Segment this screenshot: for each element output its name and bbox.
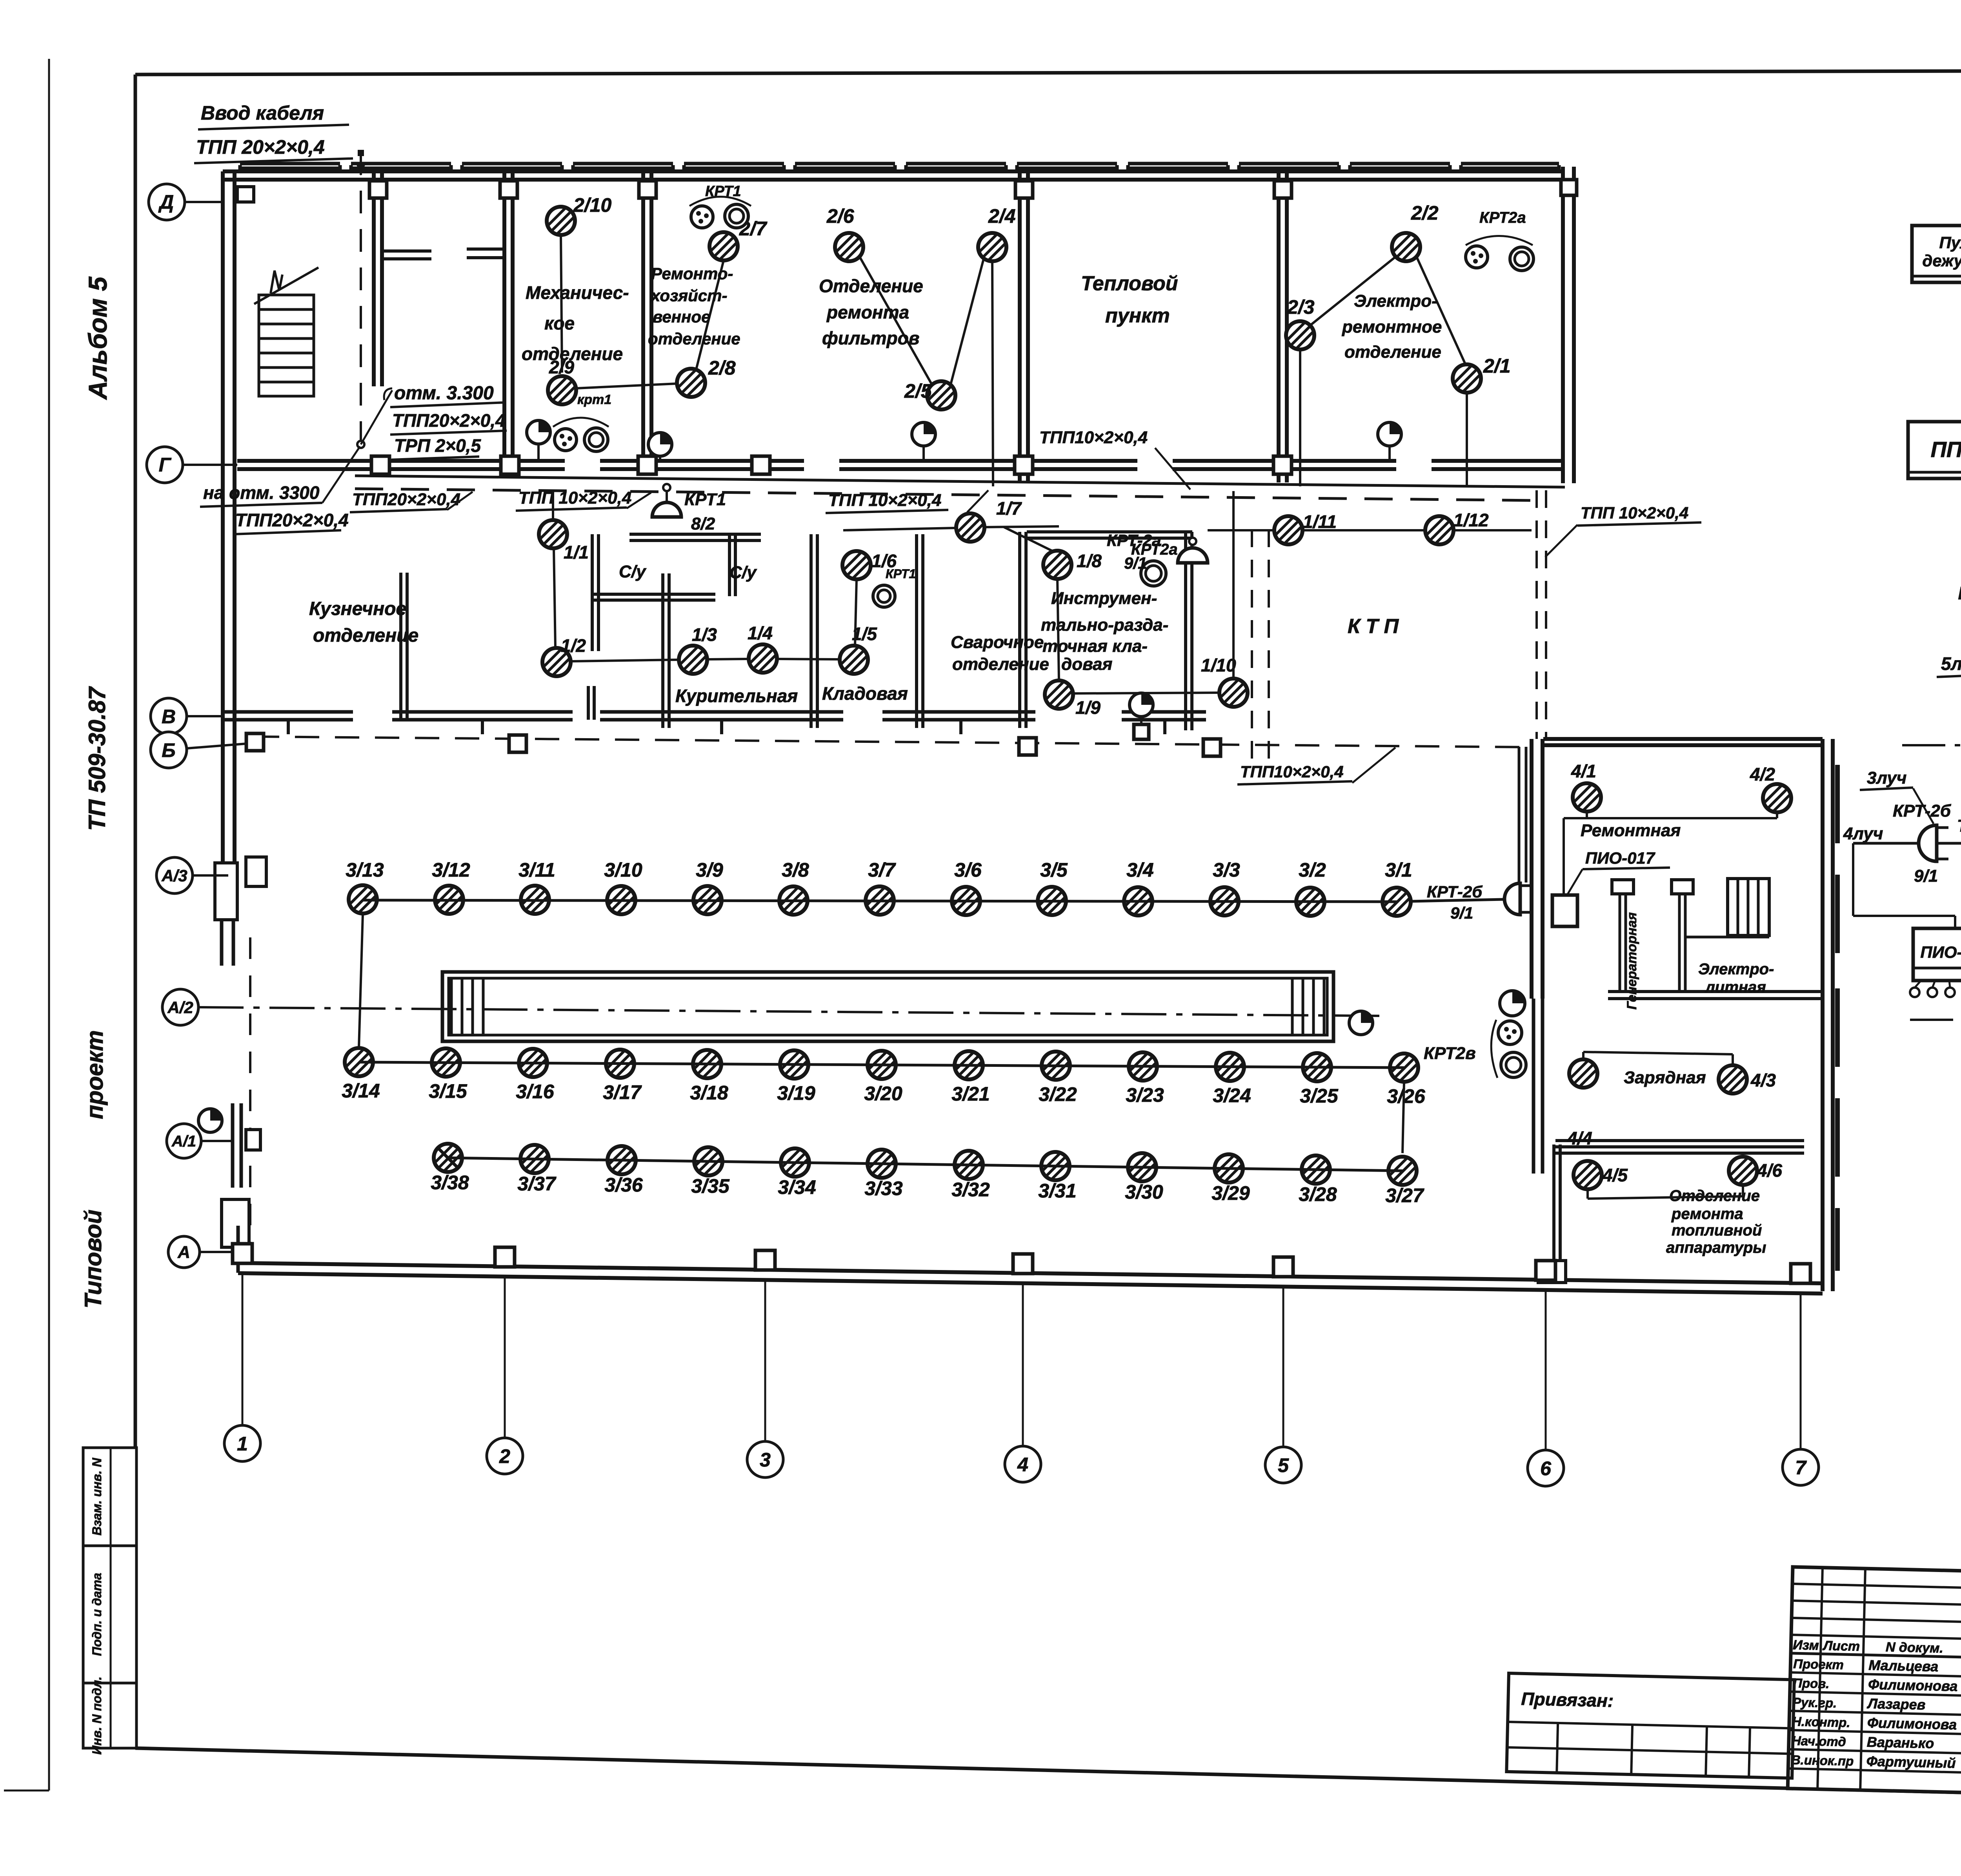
- svg-text:топливной: топливной: [1672, 1222, 1762, 1239]
- svg-text:проект: проект: [82, 1030, 108, 1119]
- svg-text:3: 3: [760, 1449, 771, 1471]
- svg-text:отделение: отделение: [648, 329, 740, 348]
- svg-text:А/3: А/3: [161, 866, 187, 885]
- svg-text:ТПП10×2×0,4: ТПП10×2×0,4: [1240, 762, 1344, 781]
- svg-text:1/7: 1/7: [996, 498, 1022, 519]
- svg-text:1/2: 1/2: [561, 635, 586, 656]
- svg-text:Мальцева: Мальцева: [1868, 1657, 1939, 1674]
- svg-text:8/2: 8/2: [691, 514, 715, 533]
- svg-text:литная: литная: [1705, 979, 1766, 996]
- svg-text:3/11: 3/11: [518, 859, 555, 881]
- svg-text:Ремонто-: Ремонто-: [651, 264, 733, 283]
- svg-text:В.инок.пр: В.инок.пр: [1791, 1752, 1854, 1769]
- svg-text:5: 5: [1278, 1454, 1289, 1476]
- svg-text:А: А: [177, 1243, 190, 1262]
- svg-text:ремонтное: ремонтное: [1342, 317, 1442, 337]
- svg-text:3/22: 3/22: [1039, 1083, 1077, 1105]
- svg-text:Кладовая: Кладовая: [822, 683, 908, 704]
- svg-text:С/у: С/у: [619, 562, 647, 581]
- svg-text:1/1: 1/1: [564, 542, 589, 562]
- svg-text:2/2: 2/2: [1411, 202, 1439, 224]
- svg-text:пункт: пункт: [1105, 304, 1170, 327]
- svg-text:3/31: 3/31: [1038, 1180, 1076, 1202]
- svg-text:9/1: 9/1: [1124, 554, 1147, 572]
- svg-text:9/1: 9/1: [1450, 904, 1473, 922]
- svg-text:Привязан:: Привязан:: [1521, 1689, 1614, 1711]
- svg-text:фильтров: фильтров: [822, 328, 919, 348]
- svg-text:3/12: 3/12: [432, 859, 470, 881]
- svg-text:6: 6: [1540, 1457, 1552, 1479]
- svg-text:ремонта: ремонта: [1671, 1205, 1743, 1223]
- svg-text:2/6: 2/6: [826, 205, 855, 227]
- svg-text:ТПП10×2×0,4: ТПП10×2×0,4: [1039, 428, 1148, 447]
- svg-text:Ремонтная: Ремонтная: [1581, 821, 1681, 840]
- svg-text:3/13: 3/13: [346, 859, 384, 881]
- svg-text:Нач.отд: Нач.отд: [1792, 1733, 1846, 1749]
- svg-text:КРТ-2а: КРТ-2а: [1107, 531, 1161, 550]
- svg-text:3/36: 3/36: [604, 1174, 643, 1196]
- svg-text:хозяйст-: хозяйст-: [650, 286, 727, 305]
- svg-text:3/38: 3/38: [431, 1172, 469, 1194]
- svg-text:3/18: 3/18: [690, 1082, 728, 1104]
- svg-text:Курительная: Курительная: [675, 686, 798, 706]
- svg-text:КРТ-2б: КРТ-2б: [1893, 801, 1952, 821]
- svg-text:Г: Г: [159, 454, 172, 476]
- svg-text:4/6: 4/6: [1757, 1160, 1782, 1181]
- svg-text:3/23: 3/23: [1126, 1084, 1164, 1106]
- svg-text:N докум.: N докум.: [1886, 1639, 1944, 1656]
- svg-text:Варанько: Варанько: [1866, 1734, 1934, 1751]
- svg-text:1/9: 1/9: [1075, 697, 1101, 718]
- svg-text:1/10: 1/10: [1201, 655, 1236, 675]
- svg-text:Инструмен-: Инструмен-: [1051, 589, 1157, 608]
- svg-text:4/1: 4/1: [1571, 761, 1596, 781]
- svg-text:3/33: 3/33: [864, 1177, 903, 1199]
- svg-text:КРТ2в: КРТ2в: [1424, 1044, 1476, 1063]
- svg-text:КРТ1: КРТ1: [705, 183, 741, 200]
- svg-text:4/4: 4/4: [1567, 1128, 1592, 1148]
- svg-text:3/2: 3/2: [1299, 859, 1326, 881]
- svg-text:3/7: 3/7: [868, 859, 896, 881]
- svg-text:Сварочное: Сварочное: [951, 633, 1044, 652]
- svg-text:3/8: 3/8: [782, 859, 809, 881]
- svg-text:Генераторная: Генераторная: [1624, 912, 1639, 1010]
- svg-text:Отделение: Отделение: [819, 276, 923, 296]
- svg-text:3/34: 3/34: [778, 1176, 816, 1198]
- svg-text:ТПП20×2×0,4: ТПП20×2×0,4: [352, 490, 460, 509]
- svg-text:2/1: 2/1: [1483, 355, 1511, 377]
- svg-text:отделение: отделение: [313, 625, 418, 646]
- svg-text:Кузнечное: Кузнечное: [309, 599, 406, 619]
- svg-text:Тепловой: Тепловой: [1081, 272, 1178, 295]
- svg-text:3/29: 3/29: [1212, 1182, 1250, 1204]
- svg-text:1/3: 1/3: [692, 624, 717, 645]
- svg-text:3/20: 3/20: [864, 1083, 902, 1104]
- svg-text:отделение: отделение: [952, 655, 1049, 674]
- svg-text:1/11: 1/11: [1303, 511, 1337, 532]
- svg-text:Н.контр.: Н.контр.: [1792, 1714, 1850, 1730]
- svg-text:Фартушный: Фартушный: [1866, 1753, 1956, 1771]
- svg-text:3/17: 3/17: [603, 1081, 642, 1103]
- svg-text:2: 2: [499, 1445, 510, 1467]
- svg-text:Подп. и дата: Подп. и дата: [90, 1573, 104, 1656]
- svg-text:ТПП 20×2×0,4: ТПП 20×2×0,4: [196, 136, 325, 158]
- svg-text:дежурного: дежурного: [1922, 251, 1961, 270]
- svg-text:Электро-: Электро-: [1698, 961, 1774, 978]
- svg-text:КРТ3: КРТ3: [1958, 583, 1961, 603]
- svg-text:на отм. 3300: на отм. 3300: [203, 482, 320, 503]
- svg-text:1/4: 1/4: [748, 623, 773, 643]
- svg-text:Лист: Лист: [1822, 1638, 1860, 1654]
- svg-text:тально-разда-: тально-разда-: [1041, 615, 1168, 635]
- svg-text:отм. 3.300: отм. 3.300: [394, 383, 494, 404]
- svg-text:Д: Д: [158, 191, 174, 213]
- svg-text:3/1: 3/1: [1385, 859, 1412, 881]
- svg-text:4/5: 4/5: [1602, 1165, 1628, 1185]
- svg-text:ТПП20×2×0,4: ТПП20×2×0,4: [392, 410, 506, 431]
- svg-text:Зарядная: Зарядная: [1624, 1068, 1706, 1087]
- svg-text:5луч: 5луч: [1941, 653, 1961, 674]
- svg-text:крт1: крт1: [577, 392, 611, 407]
- svg-text:2/8: 2/8: [708, 357, 736, 379]
- svg-text:Проект: Проект: [1793, 1656, 1844, 1672]
- svg-text:В: В: [162, 706, 176, 728]
- svg-text:3/5: 3/5: [1040, 859, 1068, 881]
- svg-text:2/3: 2/3: [1287, 296, 1315, 318]
- svg-text:Изм: Изм: [1793, 1638, 1819, 1653]
- svg-text:ТПП 10×2×0,4: ТПП 10×2×0,4: [828, 491, 941, 510]
- svg-text:кое: кое: [544, 313, 575, 333]
- svg-text:А/1: А/1: [171, 1133, 196, 1150]
- svg-text:4/3: 4/3: [1750, 1070, 1776, 1090]
- svg-text:3/27: 3/27: [1385, 1185, 1424, 1206]
- svg-text:ТРП 2×0,5: ТРП 2×0,5: [394, 435, 481, 456]
- svg-text:ТП 509-30.87: ТП 509-30.87: [84, 686, 110, 831]
- svg-text:аппаратуры: аппаратуры: [1666, 1239, 1766, 1256]
- svg-text:А/2: А/2: [167, 998, 193, 1017]
- svg-text:Лазарев: Лазарев: [1866, 1695, 1926, 1712]
- svg-text:3/37: 3/37: [517, 1173, 557, 1195]
- svg-text:ремонта: ремонта: [826, 302, 909, 322]
- svg-text:4: 4: [1017, 1454, 1028, 1476]
- svg-text:отделение: отделение: [522, 344, 623, 364]
- svg-text:ТПП 10×2×0,4: ТПП 10×2×0,4: [518, 488, 631, 508]
- svg-text:1/8: 1/8: [1077, 551, 1102, 571]
- svg-text:С/у: С/у: [729, 563, 757, 582]
- svg-text:3/26: 3/26: [1387, 1085, 1426, 1107]
- svg-text:Пульт: Пульт: [1939, 233, 1961, 252]
- svg-text:КРТ2а: КРТ2а: [1479, 209, 1526, 226]
- svg-text:3/16: 3/16: [516, 1081, 555, 1103]
- svg-text:венное: венное: [653, 308, 710, 326]
- svg-text:Взам. инв. N: Взам. инв. N: [90, 1457, 104, 1536]
- svg-text:Филимонова: Филимонова: [1868, 1676, 1958, 1694]
- svg-text:7: 7: [1795, 1457, 1807, 1479]
- svg-text:1/12: 1/12: [1453, 510, 1489, 530]
- svg-text:ТПП10×2×0,4: ТПП10×2×0,4: [1957, 816, 1961, 835]
- svg-text:3/19: 3/19: [777, 1082, 815, 1104]
- svg-text:4/2: 4/2: [1750, 764, 1775, 784]
- svg-text:3/28: 3/28: [1299, 1183, 1337, 1205]
- svg-text:Рук.гр.: Рук.гр.: [1792, 1695, 1837, 1710]
- svg-text:3/25: 3/25: [1300, 1085, 1339, 1107]
- svg-text:довая: довая: [1061, 655, 1113, 674]
- svg-text:2/10: 2/10: [573, 194, 612, 216]
- svg-text:9/1: 9/1: [1914, 866, 1938, 886]
- svg-text:Пров.: Пров.: [1793, 1676, 1830, 1691]
- svg-text:КРТ1: КРТ1: [886, 567, 916, 581]
- svg-text:3луч: 3луч: [1867, 768, 1906, 788]
- svg-text:ПИО-017: ПИО-017: [1585, 849, 1655, 867]
- svg-text:ПИО-017: ПИО-017: [1920, 943, 1961, 961]
- svg-text:Механичес-: Механичес-: [526, 282, 629, 303]
- svg-text:3/30: 3/30: [1125, 1181, 1163, 1203]
- svg-text:3/14: 3/14: [342, 1080, 380, 1102]
- svg-text:3/4: 3/4: [1126, 859, 1154, 881]
- svg-text:3/10: 3/10: [604, 859, 642, 881]
- svg-text:Альбом 5: Альбом 5: [83, 276, 112, 400]
- svg-text:Филимонова: Филимонова: [1867, 1714, 1957, 1732]
- svg-text:Электро-: Электро-: [1354, 291, 1437, 311]
- svg-text:4луч: 4луч: [1843, 824, 1883, 843]
- svg-text:3/6: 3/6: [954, 859, 982, 881]
- svg-text:3/3: 3/3: [1213, 859, 1240, 881]
- svg-text:3/21: 3/21: [951, 1083, 990, 1105]
- svg-text:Типовой: Типовой: [80, 1210, 106, 1308]
- svg-text:ТПП20×2×0,4: ТПП20×2×0,4: [235, 510, 349, 530]
- svg-text:1: 1: [237, 1433, 248, 1455]
- svg-text:3/9: 3/9: [696, 859, 723, 881]
- svg-text:ТПП 10×2×0,4: ТПП 10×2×0,4: [1581, 504, 1688, 522]
- svg-text:КРТ1: КРТ1: [684, 490, 726, 509]
- svg-text:3/15: 3/15: [429, 1080, 468, 1102]
- svg-text:2/4: 2/4: [988, 205, 1016, 227]
- svg-text:Б: Б: [162, 739, 175, 761]
- svg-text:3/24: 3/24: [1213, 1084, 1251, 1106]
- svg-text:3/35: 3/35: [691, 1175, 730, 1197]
- svg-text:отделение: отделение: [1344, 342, 1441, 362]
- svg-text:ППС-1: ППС-1: [1931, 437, 1961, 462]
- svg-text:КРТ-2б: КРТ-2б: [1427, 883, 1483, 901]
- svg-text:Ввод кабеля: Ввод кабеля: [201, 102, 324, 124]
- svg-text:Инв. N подл.: Инв. N подл.: [90, 1676, 104, 1754]
- svg-text:К Т П: К Т П: [1348, 615, 1399, 638]
- svg-text:3/32: 3/32: [951, 1179, 990, 1201]
- svg-text:2/5: 2/5: [904, 380, 932, 402]
